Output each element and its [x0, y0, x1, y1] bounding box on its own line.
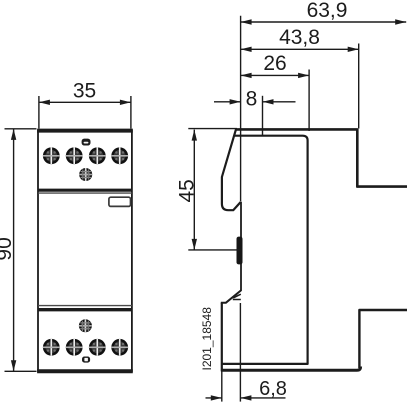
svg-text:26: 26 — [263, 52, 286, 75]
svg-text:43,8: 43,8 — [279, 26, 320, 49]
svg-text:45: 45 — [176, 179, 199, 202]
svg-text:8: 8 — [246, 87, 258, 110]
svg-text:6,8: 6,8 — [259, 378, 287, 400]
svg-text:35: 35 — [73, 80, 96, 103]
svg-text:90: 90 — [0, 237, 16, 260]
svg-text:63,9: 63,9 — [307, 0, 348, 22]
svg-text:I201_18548: I201_18548 — [200, 307, 214, 371]
